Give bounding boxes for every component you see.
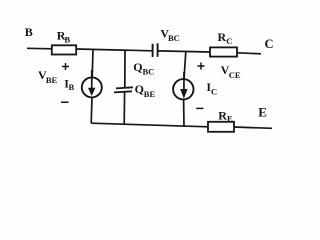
svg-text:R: R xyxy=(218,108,227,122)
svg-text:B: B xyxy=(69,82,75,92)
svg-text:BC: BC xyxy=(168,33,180,43)
svg-text:E: E xyxy=(258,105,267,120)
svg-text:CE: CE xyxy=(229,70,241,80)
svg-text:BC: BC xyxy=(143,67,155,77)
svg-text:R: R xyxy=(218,30,227,44)
svg-text:Q: Q xyxy=(133,60,142,74)
svg-text:C: C xyxy=(226,36,232,46)
svg-text:E: E xyxy=(227,114,233,124)
svg-text:B: B xyxy=(65,34,71,44)
svg-text:C: C xyxy=(265,37,274,51)
svg-text:BE: BE xyxy=(46,75,58,85)
svg-text:C: C xyxy=(211,86,217,96)
svg-text:BE: BE xyxy=(144,89,156,99)
svg-text:Q: Q xyxy=(135,82,144,96)
svg-text:B: B xyxy=(25,25,33,39)
